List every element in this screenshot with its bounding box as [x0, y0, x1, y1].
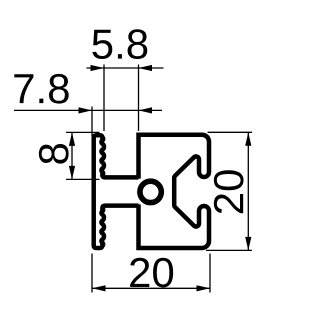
- dimension 5.8: left arrow: [91, 65, 105, 71]
- screw hole circle: [140, 181, 161, 202]
- dimension 20 bottom: dimension line: [92, 287, 210, 289]
- dimension 7.8: right arrow: [139, 107, 153, 113]
- dimension 20 right: top arrow: [245, 132, 251, 146]
- dimension 20 bottom: extension lines: [92, 254, 210, 293]
- dimension 20 right: bottom arrow: [245, 237, 251, 251]
- dimension 20 bottom: left arrow: [92, 285, 106, 291]
- dimension 20 right: value label: [214, 170, 244, 213]
- dimension 5.8: dimension line: [87, 67, 164, 69]
- dimension 8: extension lines: [66, 132, 100, 179]
- dimension 20 bottom: right arrow: [197, 285, 211, 291]
- dimension 8: dimension line: [71, 132, 73, 179]
- dimension 8: bottom arrow: [69, 166, 75, 180]
- dimension 7.8: extension line: [91, 107, 93, 137]
- dimension 5.8: value label: [92, 29, 147, 59]
- dimension 8: top arrow: [69, 132, 75, 146]
- profile main body with T-slot on right: [139, 135, 210, 248]
- dimension 8: value label: [39, 144, 69, 164]
- dimension 20 right: dimension line: [247, 132, 249, 250]
- dimension 7.8: dimension line: [14, 109, 162, 111]
- dimension 5.8: right arrow: [139, 65, 153, 71]
- dimension 5.8: extension lines: [104, 65, 139, 132]
- dimension 20 bottom: value label: [130, 258, 173, 288]
- profile left flange with knurled edge and web: [94, 135, 139, 248]
- dimension 20 right: extension lines: [206, 132, 252, 250]
- dimension 7.8: value label: [14, 74, 68, 104]
- dimension 7.8: left arrow: [79, 107, 93, 113]
